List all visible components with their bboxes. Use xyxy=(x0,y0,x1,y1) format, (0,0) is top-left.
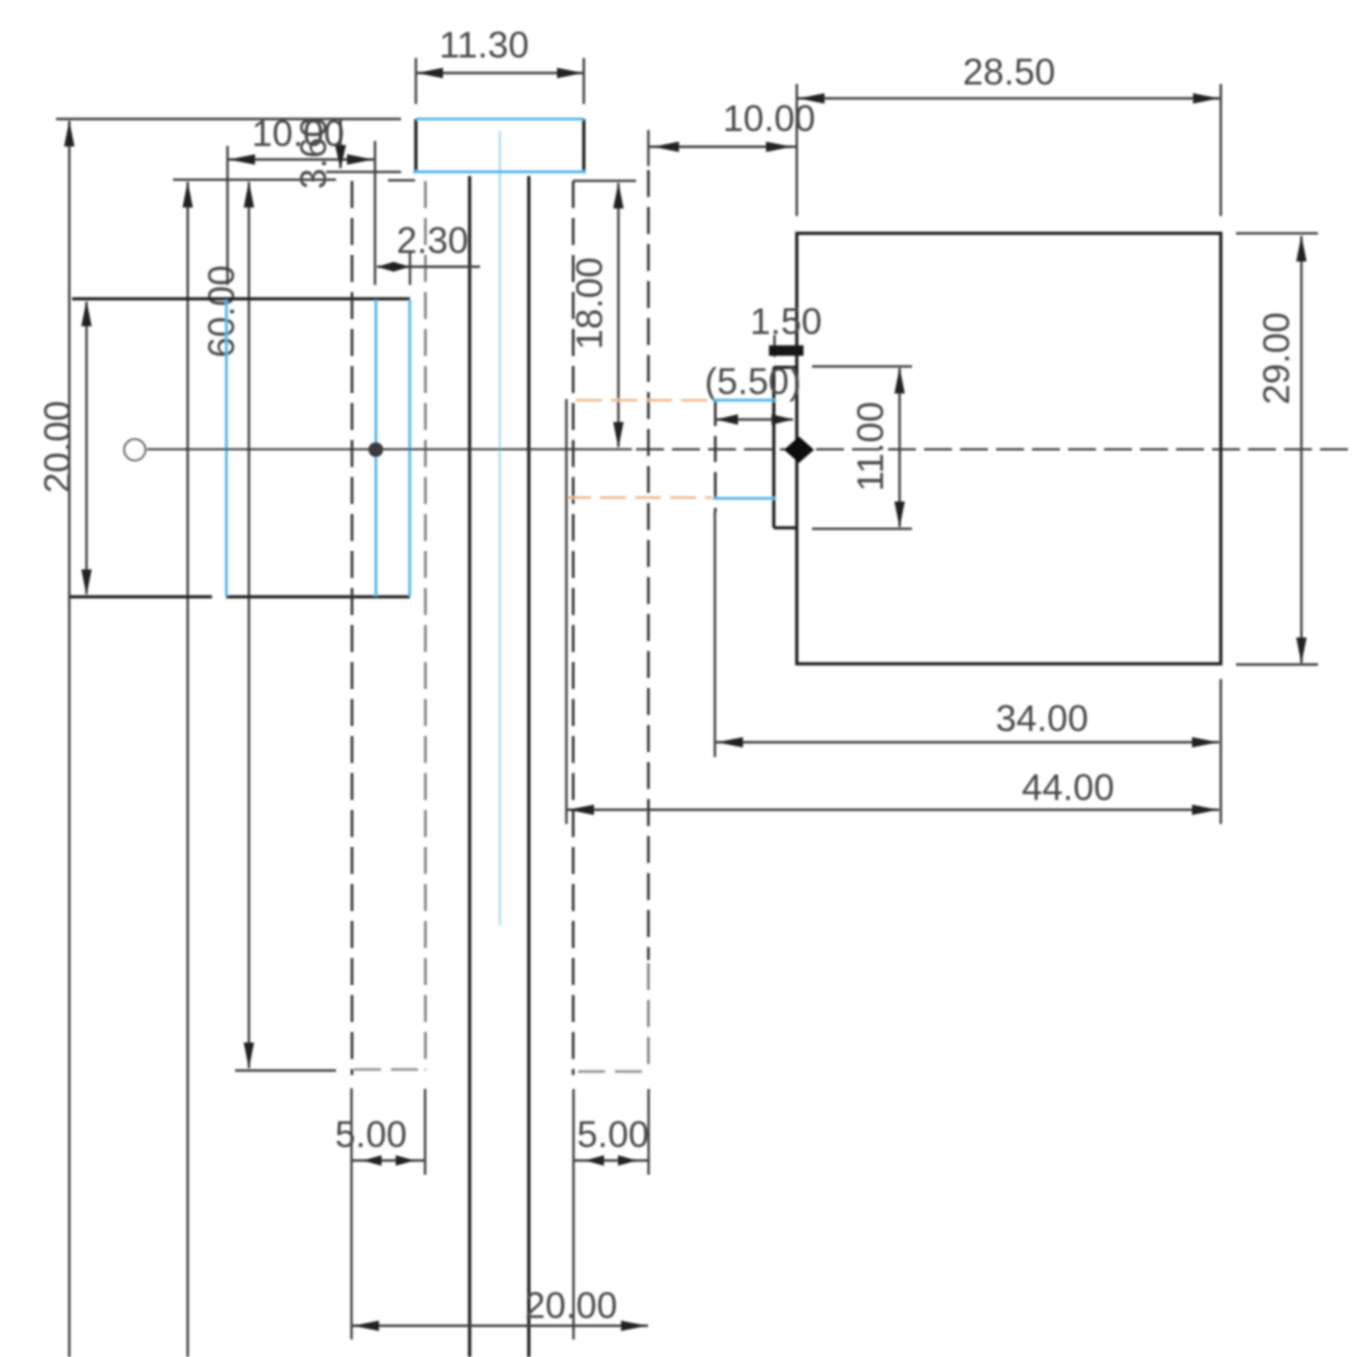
label 60.00 xyxy=(201,265,242,358)
top rect cyan top edge xyxy=(416,118,584,121)
dimension 1.50 arrows xyxy=(769,345,804,356)
label 10.00 right xyxy=(723,98,816,139)
hidden extension x=715 xyxy=(714,400,717,512)
dimension 29.00 extensions xyxy=(1236,233,1318,664)
label 11.30 xyxy=(439,25,529,66)
label 5.00 left xyxy=(335,1114,407,1155)
svg-text:34.00: 34.00 xyxy=(996,698,1089,739)
top rect right edge xyxy=(582,119,585,172)
dashed centerline xyxy=(636,448,1352,450)
svg-text:20.00: 20.00 xyxy=(525,1285,618,1326)
dimension 60.00 line xyxy=(244,182,254,1069)
label 20.00 bottom xyxy=(525,1285,618,1326)
svg-text:5.00: 5.00 xyxy=(335,1114,407,1155)
hidden line x=573 xyxy=(572,181,575,1075)
dimension 20.00 bottom line xyxy=(352,1321,648,1331)
hidden line grey x=425 xyxy=(424,181,427,1070)
extension line 3.60 bottom xyxy=(326,171,401,173)
svg-text:1.50: 1.50 xyxy=(750,301,822,342)
dimension 10.00 left line xyxy=(228,154,374,164)
cyan horizontal lower xyxy=(713,497,776,500)
left rect bottom edge xyxy=(70,595,410,598)
dimension 44.00 line xyxy=(567,805,1219,815)
extension x=1221 down xyxy=(1220,679,1222,824)
sketch point dot xyxy=(368,442,383,457)
dimension line x=188 (cut off bottom) xyxy=(183,182,193,1357)
extension x=797 up xyxy=(796,84,798,216)
label 5.00 right xyxy=(577,1114,649,1155)
extension x=1221 up xyxy=(1220,84,1222,216)
dimension 5.50 line xyxy=(715,414,794,424)
dimension 11.00 extensions xyxy=(812,366,912,528)
dimension 2.30 line xyxy=(377,262,480,272)
dimension 28.50 line xyxy=(798,93,1221,103)
extension x=566 for 44.00 xyxy=(565,399,567,824)
svg-text:28.50: 28.50 xyxy=(963,52,1056,93)
left rect top edge xyxy=(72,297,410,300)
dimension 5.00 right line xyxy=(574,1155,649,1165)
label 20.00 left xyxy=(37,401,78,494)
label 10.00 left xyxy=(252,113,345,154)
orange dashed lower xyxy=(565,496,712,499)
label 2.30 xyxy=(396,220,468,261)
hidden line x=352 xyxy=(351,181,354,1075)
dimension 29.00 line xyxy=(1296,236,1306,664)
svg-text:10.00: 10.00 xyxy=(723,98,816,139)
svg-text:18.00: 18.00 xyxy=(569,257,610,350)
svg-text:2.30: 2.30 xyxy=(396,220,468,261)
part edge x=470 xyxy=(468,176,471,1357)
hidden line grey x=648 lower xyxy=(647,963,650,1070)
label 1.50 xyxy=(750,301,822,342)
part edge x=529 xyxy=(527,176,530,1357)
svg-text:44.00: 44.00 xyxy=(1022,767,1115,808)
extension x=715 solid xyxy=(714,512,716,757)
dimension 18.00 extension xyxy=(573,180,636,182)
dimension 34.00 line xyxy=(716,737,1219,747)
dimension 20.00 line xyxy=(81,300,91,595)
dimension 5.00 left line xyxy=(352,1155,426,1165)
svg-text:11.00: 11.00 xyxy=(850,402,891,492)
dimension ticks bottom left pair xyxy=(352,1088,426,1339)
cyan sketch line x=226 xyxy=(225,300,228,596)
dimension line x=69 (cut off bottom) xyxy=(64,121,74,1357)
top rect cyan bottom edge xyxy=(413,170,586,173)
extension line top y=119 xyxy=(56,118,401,121)
orange dashed upper xyxy=(576,399,713,402)
dimension 3.60 line xyxy=(335,119,346,169)
extension line y=180 xyxy=(173,178,415,181)
dimension 18.00 line xyxy=(613,183,623,449)
label (5.50) xyxy=(705,361,802,402)
svg-text:29.00: 29.00 xyxy=(1256,312,1297,405)
label 29.00 xyxy=(1256,312,1297,405)
svg-text:(5.50): (5.50) xyxy=(705,361,802,402)
notch rect left edge xyxy=(772,367,775,528)
datum circle xyxy=(124,439,145,460)
notch rect top edge xyxy=(774,366,797,369)
label 28.50 xyxy=(963,52,1056,93)
label 11.00 xyxy=(850,402,891,492)
svg-text:60.00: 60.00 xyxy=(201,265,242,358)
svg-text:3.60: 3.60 xyxy=(293,117,334,189)
dimension 10.00 right line xyxy=(649,142,796,152)
svg-text:5.00: 5.00 xyxy=(577,1114,649,1155)
svg-text:20.00: 20.00 xyxy=(37,401,78,494)
pale cyan centerline x=500 xyxy=(499,131,501,925)
midpoint diamond xyxy=(784,437,814,463)
centerline left solid xyxy=(147,448,632,450)
big rect xyxy=(797,233,1221,664)
cyan sketch line x=376 xyxy=(374,300,377,596)
label 18.00 xyxy=(569,257,610,350)
dimension 1.50 tick xyxy=(773,335,775,357)
svg-text:11.30: 11.30 xyxy=(439,25,529,66)
dimension 2.30 tick xyxy=(409,252,411,285)
top rect left edge xyxy=(414,119,417,172)
cyan horizontal upper xyxy=(713,399,776,402)
label 44.00 xyxy=(1022,767,1115,808)
label 34.00 xyxy=(996,698,1089,739)
hidden connector y=1070 left xyxy=(354,1068,425,1071)
dimension 11.00 line xyxy=(894,368,904,528)
dimension ticks bottom right pair xyxy=(574,1089,649,1340)
hidden connector y=1072 right xyxy=(578,1070,648,1073)
dimension 10.00 left ticks xyxy=(228,141,376,285)
hidden line x=648 upper xyxy=(647,170,650,960)
label 3.60 xyxy=(293,117,334,189)
notch rect bottom edge xyxy=(774,526,797,529)
cyan sketch line x=410 xyxy=(408,300,411,596)
dimension 11.30 ticks xyxy=(416,58,584,104)
extension line 60.00 bottom xyxy=(235,1069,336,1071)
dimension 10.00 right tick xyxy=(647,130,649,166)
dimension 11.30 line xyxy=(417,68,583,78)
